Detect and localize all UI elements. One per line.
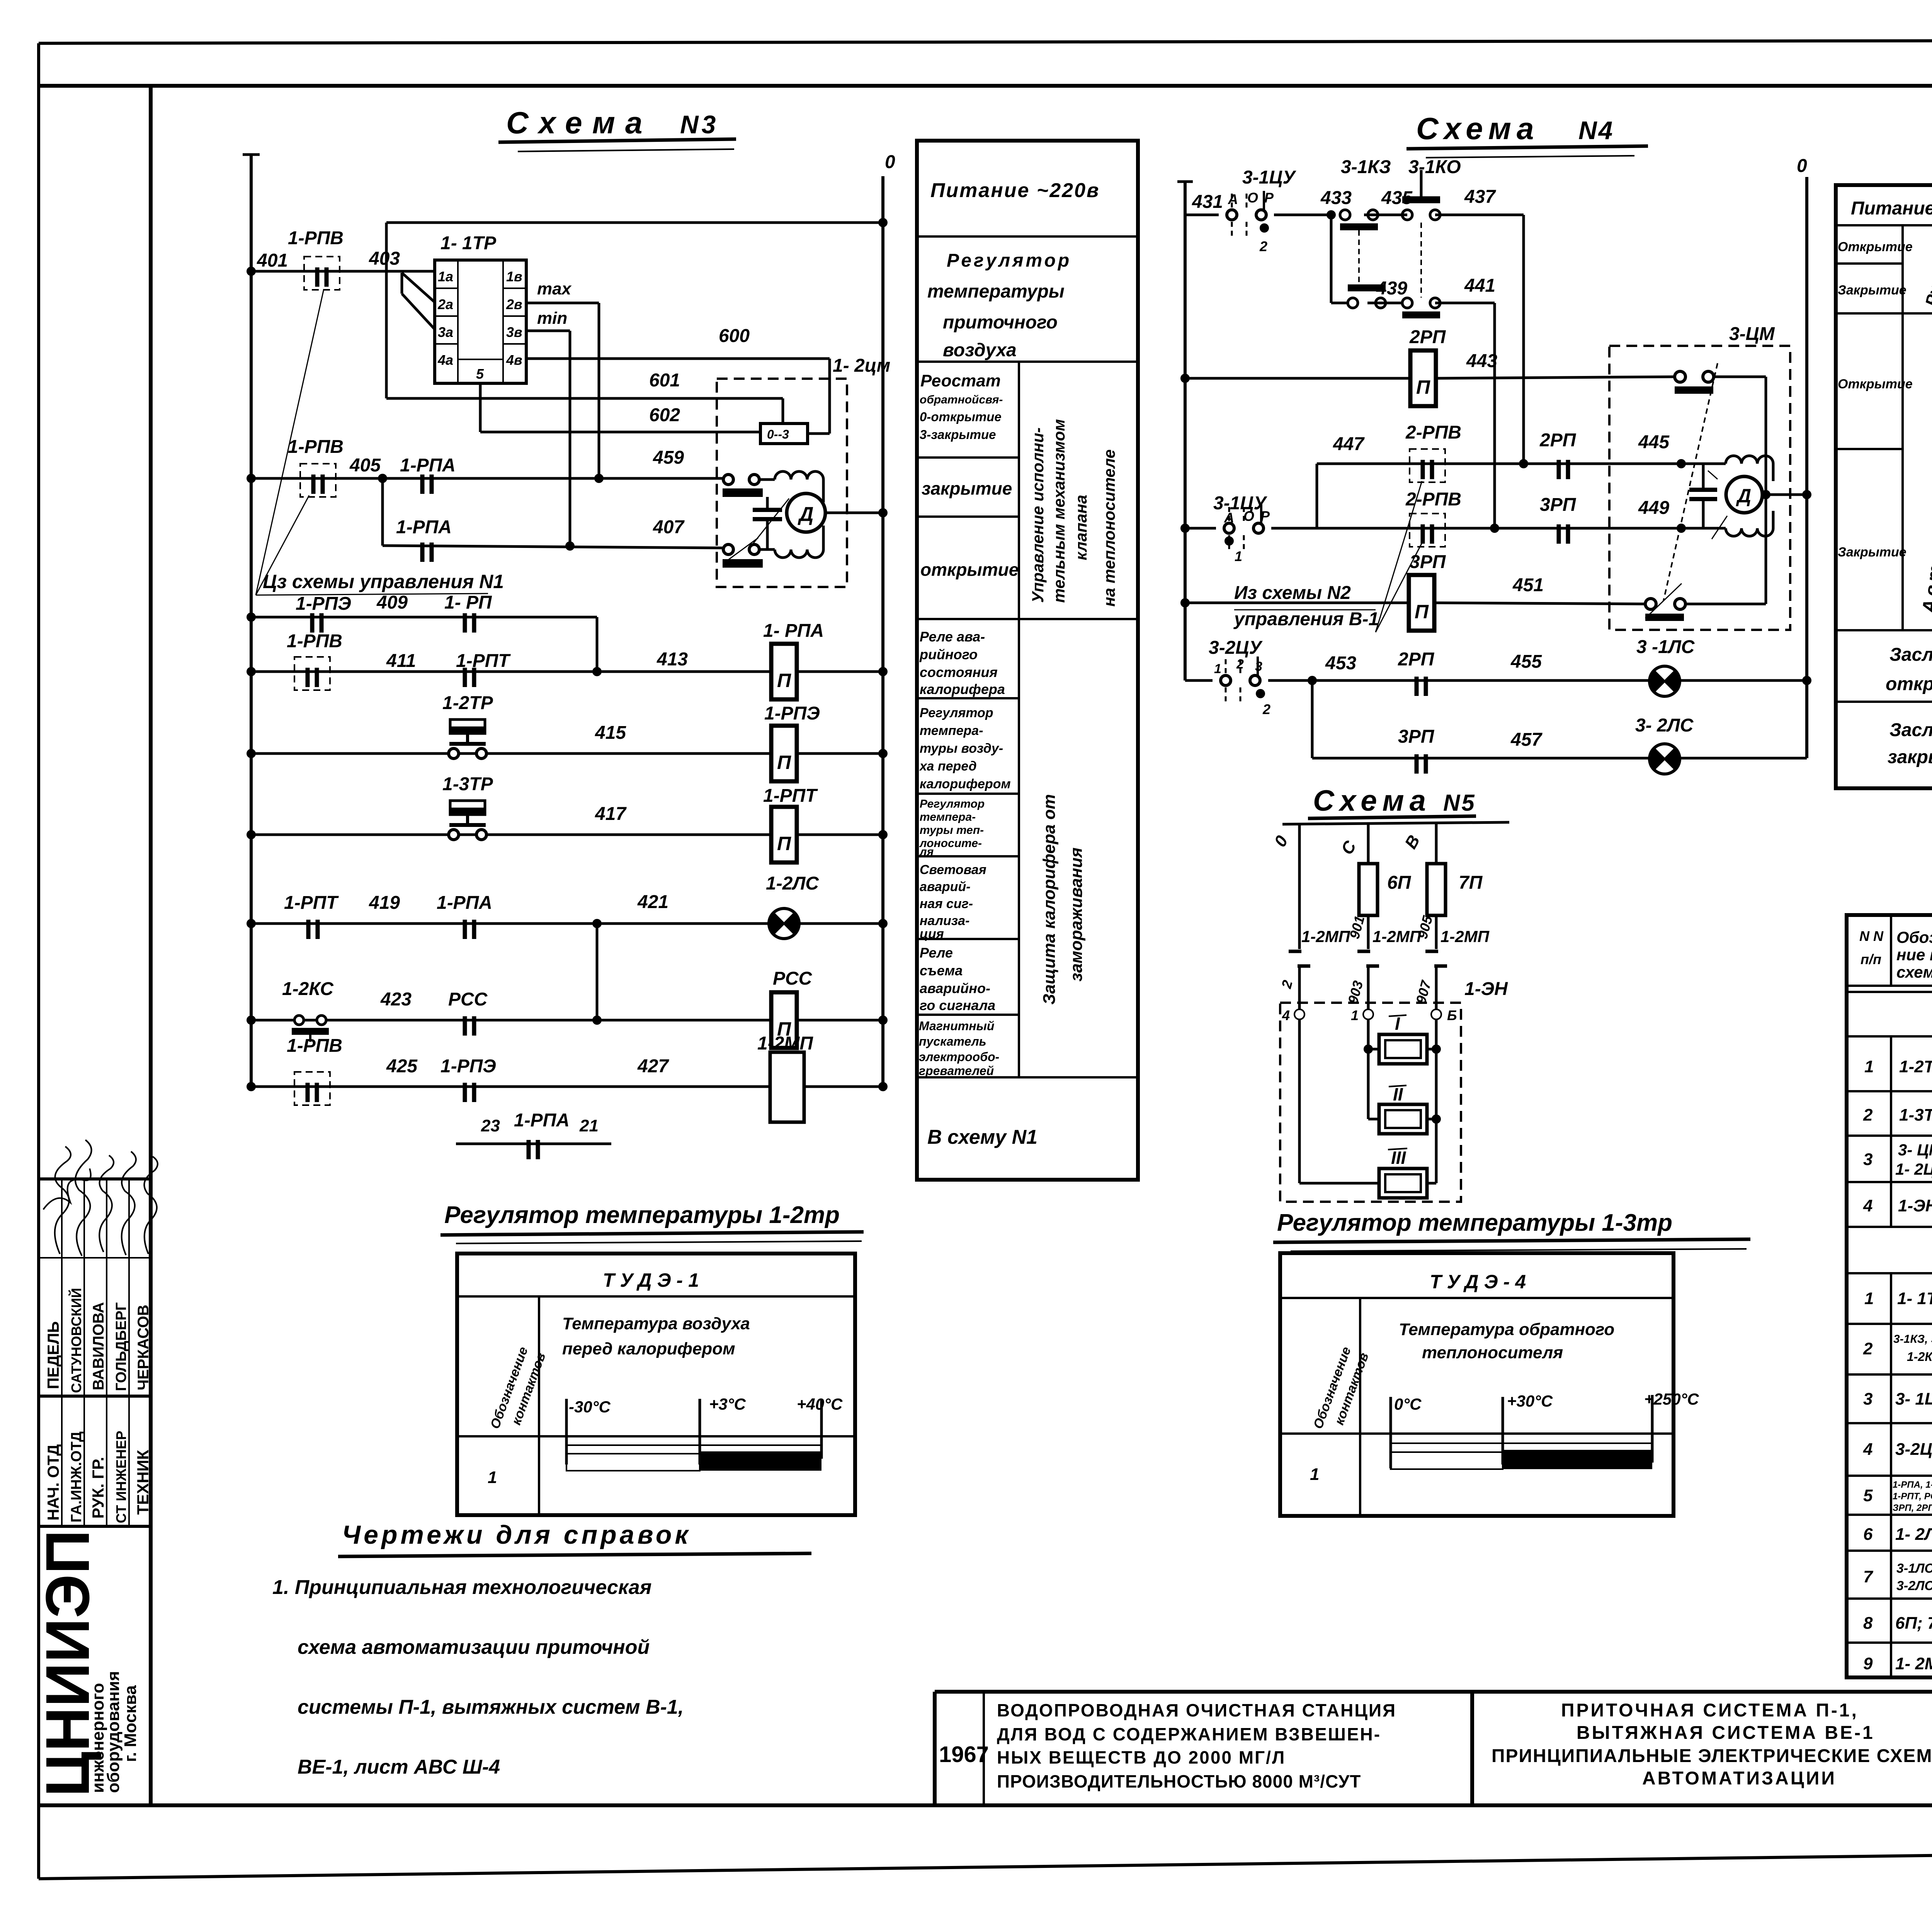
svg-text:4а: 4а — [437, 352, 453, 368]
svg-text:воздуха: воздуха — [943, 340, 1017, 361]
table ТУДЭ-1 — [457, 1254, 855, 1515]
svg-text:3РП: 3РП — [1410, 552, 1446, 572]
Schema N5 title — [1308, 784, 1476, 818]
svg-text:-30°С: -30°С — [569, 1398, 611, 1416]
svg-text:Регулятор: Регулятор — [920, 798, 985, 810]
svg-text:21: 21 — [579, 1116, 599, 1135]
svg-text:Управление исполни-: Управление исполни- — [1029, 427, 1047, 603]
pushbutton 3-1КЗ lower contact 439 — [1348, 298, 1386, 308]
svg-text:ЗРП, 2РП: ЗРП, 2РП — [1893, 1503, 1932, 1513]
svg-text:1-3ТР: 1-3ТР — [1899, 1106, 1932, 1124]
svg-text:449: 449 — [1638, 498, 1669, 518]
stamp signatures (cursive squiggles) — [55, 1146, 71, 1254]
svg-text:ГОЛЬДБЕРГ: ГОЛЬДБЕРГ — [113, 1302, 129, 1391]
svg-text:оборудования: оборудования — [104, 1671, 123, 1793]
svg-text:НЫХ ВЕЩЕСТВ ДО 2000 МГ/Л: НЫХ ВЕЩЕСТВ ДО 2000 МГ/Л — [997, 1747, 1286, 1767]
svg-text:423: 423 — [380, 989, 412, 1010]
svg-text:N3: N3 — [680, 110, 719, 139]
svg-text:Заслонка: Заслонка — [1889, 645, 1932, 665]
svg-text:3 -1ЛС: 3 -1ЛС — [1636, 637, 1695, 657]
wire 437 — [1435, 214, 1524, 216]
svg-text:ние по: ние по — [1896, 946, 1932, 964]
svg-text:3-2ЦУ: 3-2ЦУ — [1895, 1440, 1932, 1459]
svg-text:3- ЦМ: 3- ЦМ — [1898, 1141, 1932, 1159]
wire 405/459 — [251, 477, 724, 480]
temperature regulator block 1-1ТР — [435, 233, 526, 383]
svg-text:4в: 4в — [506, 352, 522, 368]
svg-text:1-2МП: 1-2МП — [1301, 927, 1350, 946]
rheostat 0--3 — [760, 424, 808, 444]
svg-text:Реле: Реле — [920, 945, 953, 961]
svg-text:455: 455 — [1510, 651, 1542, 672]
wire 417 — [251, 833, 771, 836]
svg-text:III: III — [1391, 1148, 1406, 1168]
svg-text:РУК. ГР.: РУК. ГР. — [89, 1457, 107, 1519]
svg-text:6: 6 — [1863, 1525, 1873, 1544]
svg-text:1-РПА, 1-РПЭ: 1-РПА, 1-РПЭ — [1893, 1480, 1932, 1490]
wire 601 — [386, 397, 783, 400]
wire 425/427 — [251, 1085, 770, 1088]
svg-text:427: 427 — [637, 1056, 669, 1077]
wire fan-in to pins 2a 3a — [402, 273, 435, 302]
svg-text:3: 3 — [1863, 1150, 1872, 1169]
svg-text:1: 1 — [1864, 1057, 1874, 1076]
svg-text:N N: N N — [1859, 928, 1884, 944]
svg-text:1: 1 — [488, 1468, 497, 1487]
svg-text:1- 2МП: 1- 2МП — [1895, 1654, 1932, 1673]
svg-text:5: 5 — [1863, 1486, 1873, 1505]
svg-text:О: О — [1247, 190, 1258, 206]
svg-text:441: 441 — [1464, 276, 1495, 296]
svg-text:N5: N5 — [1443, 790, 1476, 816]
svg-text:ЧЕРКАСОВ: ЧЕРКАСОВ — [135, 1305, 152, 1390]
svg-text:САТУНОВСКИЙ: САТУНОВСКИЙ — [68, 1288, 84, 1393]
svg-text:1-РПА: 1-РПА — [400, 455, 456, 476]
svg-text:N4: N4 — [1578, 116, 1614, 145]
svg-text:max: max — [537, 279, 572, 298]
svg-text:3а: 3а — [438, 324, 453, 340]
wire right bus N3 — [881, 176, 884, 1087]
svg-text:Магнитный: Магнитный — [919, 1019, 994, 1033]
motor coil upper (3-ЦМ) — [1726, 456, 1773, 464]
svg-text:г. Москва: г. Москва — [121, 1685, 140, 1762]
svg-text:415: 415 — [595, 723, 626, 743]
svg-text:ТЕХНИК: ТЕХНИК — [134, 1450, 152, 1515]
svg-text:Р: Р — [1264, 190, 1274, 206]
svg-text:457: 457 — [1510, 730, 1543, 750]
inner frame top — [37, 84, 1932, 88]
svg-text:на теплоносителе: на теплоносителе — [1100, 449, 1118, 607]
svg-text:3-2ЦУ: 3-2ЦУ — [1209, 638, 1263, 658]
signature table frame — [39, 1177, 151, 1180]
svg-text:системы П-1, вытяжных систем: системы П-1, вытяжных систем В-1, — [298, 1696, 684, 1718]
svg-text:СТ ИНЖЕНЕР: СТ ИНЖЕНЕР — [113, 1431, 129, 1523]
svg-text:перед калорифером: перед калорифером — [562, 1339, 735, 1358]
damper contact lower (3-ЦМ) — [1645, 599, 1656, 609]
svg-text:1-РПЭ: 1-РПЭ — [764, 703, 820, 724]
table ТУДЭ-4 — [1280, 1253, 1699, 1516]
wires inside heater box — [1298, 1019, 1301, 1183]
svg-text:аварийно-: аварийно- — [920, 980, 990, 996]
svg-text:туры теп-: туры теп- — [920, 824, 984, 837]
svg-text:Защита калорифера от: Защита калорифера от — [1040, 794, 1059, 1005]
svg-text:1-РПТ, РСС: 1-РПТ, РСС — [1893, 1491, 1932, 1502]
svg-text:Регулятор температуры 1-3тр: Регулятор температуры 1-3тр — [1277, 1209, 1672, 1236]
wire rung 449 — [1185, 527, 1216, 530]
svg-text:601: 601 — [649, 370, 680, 391]
svg-text:Чертежи для справок: Чертежи для справок — [342, 1520, 691, 1550]
svg-text:2РП: 2РП — [1539, 430, 1577, 451]
svg-text:Д: Д — [798, 503, 814, 526]
wire N5 right drop — [1435, 823, 1438, 949]
motor Д 1-2ЦМ — [787, 493, 825, 532]
wire rung 431 — [1185, 214, 1219, 216]
svg-text:411: 411 — [386, 651, 416, 671]
wire motor to bus — [825, 512, 883, 514]
svg-text:409: 409 — [376, 592, 408, 613]
svg-text:2: 2 — [1262, 701, 1270, 717]
svg-text:2-РПВ: 2-РПВ — [1405, 422, 1461, 443]
wire vertical right inside box — [1765, 377, 1767, 604]
svg-text:1: 1 — [1864, 1289, 1874, 1308]
wire branch to 439 — [1330, 215, 1333, 303]
wire rung 457 — [1312, 757, 1649, 760]
svg-text:3-1КО: 3-1КО — [1408, 157, 1461, 177]
svg-text:4: 4 — [1863, 1440, 1872, 1459]
fuse 7П — [1427, 864, 1446, 915]
svg-text:3-1ЦУ: 3-1ЦУ — [1213, 493, 1267, 514]
wire rung 453/455 — [1185, 679, 1213, 682]
svg-text:Температура воздуха: Температура воздуха — [562, 1314, 750, 1333]
wire left bus N3 — [250, 153, 253, 1087]
svg-text:451: 451 — [1512, 575, 1544, 595]
svg-text:4: 4 — [1863, 1196, 1872, 1215]
svg-text:4: 4 — [1282, 1007, 1290, 1023]
svg-text:Регулятор: Регулятор — [920, 706, 993, 720]
wire 423 — [251, 1019, 771, 1022]
svg-text:Б: Б — [1447, 1007, 1457, 1023]
svg-text:ВЕ-1, лист АВС Ш-4: ВЕ-1, лист АВС Ш-4 — [298, 1756, 500, 1778]
svg-text:Из схемы N2: Из схемы N2 — [1234, 583, 1351, 603]
svg-text:1-РПА: 1-РПА — [437, 893, 492, 913]
svg-text:417: 417 — [595, 804, 627, 824]
svg-text:закрытие: закрытие — [922, 478, 1012, 498]
svg-text:рийного: рийного — [919, 646, 978, 662]
svg-text:443: 443 — [1466, 351, 1497, 371]
svg-text:клапана: клапана — [1072, 495, 1090, 560]
wires between buttons — [1364, 214, 1407, 216]
svg-text:407: 407 — [653, 517, 685, 538]
svg-text:управления В-1: управления В-1 — [1233, 609, 1379, 629]
svg-text:1- РП: 1- РП — [444, 592, 492, 613]
svg-text:1-РПВ: 1-РПВ — [288, 228, 344, 248]
wire rung 447 — [1317, 463, 1726, 465]
svg-text:1а: 1а — [438, 269, 453, 284]
svg-text:1- 2ЛС: 1- 2ЛС — [1895, 1525, 1932, 1544]
svg-text:0°С: 0°С — [1394, 1395, 1422, 1413]
equipment table frame — [1847, 915, 1932, 1677]
svg-text:ВЫТЯЖНАЯ СИСТЕМА ВЕ-1: ВЫТЯЖНАЯ СИСТЕМА ВЕ-1 — [1577, 1723, 1875, 1743]
svg-text:ГА.ИНЖ.ОТД: ГА.ИНЖ.ОТД — [68, 1431, 85, 1522]
svg-text:РСС: РСС — [773, 968, 813, 989]
svg-text:1-2ТР: 1-2ТР — [442, 693, 493, 713]
svg-text:аварий-: аварий- — [920, 879, 971, 894]
svg-text:3РП: 3РП — [1398, 726, 1435, 747]
svg-text:нализа-: нализа- — [920, 913, 969, 928]
svg-text:РСС: РСС — [448, 989, 488, 1010]
svg-text:2РП: 2РП — [1409, 327, 1446, 347]
wire vertical branch x1000 — [385, 223, 388, 398]
svg-text:Регулятор температуры 1-2тр: Регулятор температуры 1-2тр — [444, 1202, 840, 1228]
svg-text:АВТОМАТИЗАЦИИ: АВТОМАТИЗАЦИИ — [1642, 1768, 1837, 1789]
outer border top — [39, 40, 1932, 43]
svg-text:0--3: 0--3 — [767, 427, 789, 441]
svg-text:Д: Д — [1736, 485, 1751, 507]
svg-text:2: 2 — [1863, 1106, 1873, 1124]
wire 419/421 — [251, 922, 769, 925]
svg-text:+3°С: +3°С — [709, 1395, 746, 1413]
svg-text:состояния: состояния — [920, 664, 998, 680]
capacitor (3-ЦМ) — [1702, 464, 1705, 488]
motor coil lower (3-ЦМ) — [1726, 528, 1773, 536]
svg-text:1-РПТ: 1-РПТ — [284, 893, 339, 913]
svg-text:431: 431 — [1192, 192, 1223, 212]
svg-text:437: 437 — [1464, 187, 1496, 207]
svg-text:3- 1ЦУ: 3- 1ЦУ — [1895, 1390, 1932, 1408]
mechanical link dashed diagonal — [1663, 363, 1718, 601]
svg-text:1- 1ТР: 1- 1ТР — [440, 233, 497, 253]
motor coil lower — [775, 549, 823, 558]
svg-text:2в: 2в — [506, 296, 522, 312]
svg-text:1- 1ТР: 1- 1ТР — [1897, 1289, 1932, 1308]
svg-text:439: 439 — [1376, 278, 1407, 299]
svg-text:ПРИТОЧНАЯ СИСТЕМА П-1,: ПРИТОЧНАЯ СИСТЕМА П-1, — [1561, 1700, 1859, 1721]
svg-text:Регулятор: Регулятор — [947, 250, 1071, 271]
motor contact upper (1-2ЦМ) — [723, 475, 733, 485]
svg-text:405: 405 — [349, 455, 381, 476]
svg-text:0: 0 — [1797, 156, 1807, 176]
svg-text:3-1КЗ: 3-1КЗ — [1341, 157, 1391, 177]
svg-text:Реостат: Реостат — [920, 371, 1001, 390]
svg-text:Цз схемы управления N1: Цз схемы управления N1 — [263, 571, 504, 592]
wire 409 — [251, 616, 597, 619]
svg-text:3-закрытие: 3-закрытие — [920, 427, 996, 442]
svg-text:1-РПА: 1-РПА — [396, 517, 452, 538]
heater dashed box — [1280, 1003, 1461, 1202]
svg-text:тельным механизмом: тельным механизмом — [1050, 419, 1068, 603]
svg-text:ля: ля — [919, 845, 934, 858]
svg-text:3-1ЛС: 3-1ЛС — [1896, 1561, 1932, 1576]
svg-text:1-ЭН: 1-ЭН — [1898, 1196, 1932, 1215]
wire branch down to 407 — [381, 478, 384, 546]
svg-text:Закрытие: Закрытие — [1838, 545, 1906, 560]
svg-text:602: 602 — [649, 405, 680, 425]
svg-text:туры возду-: туры возду- — [920, 741, 1003, 756]
svg-text:ДЛЯ ВОД С СОДЕРЖАНИЕМ ВЗВЕШЕН-: ДЛЯ ВОД С СОДЕРЖАНИЕМ ВЗВЕШЕН- — [997, 1724, 1381, 1744]
svg-text:ПРОИЗВОДИТЕЛЬНОСТЬЮ 8000 М³/СУ: ПРОИЗВОДИТЕЛЬНОСТЬЮ 8000 М³/СУТ — [997, 1771, 1361, 1791]
svg-text:3-ЦМ: 3-ЦМ — [1729, 324, 1775, 344]
svg-text:темпера-: темпера- — [920, 811, 976, 823]
motor contact lower (1-2ЦМ) — [723, 544, 733, 555]
svg-text:теплоносителя: теплоносителя — [1422, 1343, 1563, 1362]
svg-text:3: 3 — [1863, 1390, 1872, 1408]
svg-text:п/п: п/п — [1861, 951, 1881, 967]
svg-text:401: 401 — [257, 250, 288, 271]
svg-text:1967: 1967 — [939, 1742, 989, 1767]
svg-text:1-2МП: 1-2МП — [1440, 927, 1490, 946]
svg-text:го сигнала: го сигнала — [920, 997, 995, 1013]
svg-text:3РП: 3РП — [1540, 495, 1577, 515]
wire branch 421 down — [596, 924, 599, 1020]
svg-text:ТУДЭ-4: ТУДЭ-4 — [1430, 1271, 1531, 1293]
svg-text:2а: 2а — [437, 296, 453, 312]
svg-text:съема: съема — [920, 963, 963, 978]
svg-text:23: 23 — [481, 1116, 500, 1135]
wire branch 453 down — [1311, 680, 1314, 758]
svg-text:ная сиг-: ная сиг- — [920, 896, 973, 911]
N3 legend table frame — [917, 141, 1138, 1180]
svg-text:+30°С: +30°С — [1507, 1392, 1553, 1410]
svg-text:+40°С: +40°С — [797, 1395, 843, 1413]
svg-text:1в: 1в — [506, 269, 522, 284]
svg-text:1-РПВ: 1-РПВ — [288, 437, 344, 457]
note leader lines — [256, 495, 309, 595]
svg-text:6П: 6П — [1387, 873, 1412, 893]
svg-text:1-2КС: 1-2КС — [1907, 1350, 1932, 1364]
wire 602 from pin 5 — [479, 383, 482, 432]
wire 407 — [383, 546, 724, 548]
svg-text:закрыта: закрыта — [1888, 747, 1932, 767]
svg-text:3в: 3в — [506, 324, 522, 340]
svg-text:ТУДЭ-1: ТУДЭ-1 — [603, 1269, 704, 1291]
Schema N4 title — [1406, 111, 1648, 158]
svg-text:0-открытие: 0-открытие — [920, 410, 1002, 424]
mechanical link diagonal — [753, 498, 789, 544]
svg-text:600: 600 — [719, 326, 750, 346]
wire rung 443 — [1185, 377, 1410, 380]
svg-text:1: 1 — [1235, 548, 1242, 564]
svg-text:1-РПВ: 1-РПВ — [287, 631, 342, 651]
wire max from pin 2в — [526, 302, 599, 304]
wire 411/413 — [251, 670, 771, 673]
svg-text:схеме: схеме — [1896, 963, 1932, 981]
svg-text:1-3ТР: 1-3ТР — [442, 774, 493, 794]
svg-text:ВАВИЛОВА: ВАВИЛОВА — [90, 1302, 107, 1390]
svg-text:1-2МП: 1-2МП — [1372, 927, 1422, 946]
svg-text:Питание ~220В: Питание ~220В — [1851, 198, 1932, 219]
N4 legend table frame — [1836, 185, 1932, 788]
svg-text:1- РПА: 1- РПА — [763, 621, 824, 641]
svg-text:1-РПЭ: 1-РПЭ — [440, 1056, 496, 1077]
svg-text:2: 2 — [1863, 1339, 1873, 1358]
fuse 6П — [1359, 864, 1378, 915]
svg-text:1: 1 — [1214, 662, 1221, 676]
svg-text:3- 2ЛС: 3- 2ЛС — [1635, 715, 1694, 736]
svg-text:433: 433 — [1320, 188, 1352, 208]
svg-text:В схему N1: В схему N1 — [927, 1126, 1037, 1148]
svg-text:445: 445 — [1638, 432, 1670, 452]
outer border bottom — [39, 1846, 1932, 1879]
svg-text:темпера-: темпера- — [920, 723, 983, 738]
svg-text:3-1ЦУ: 3-1ЦУ — [1242, 167, 1296, 188]
svg-text:ция: ция — [920, 927, 944, 941]
capacitor (1-2ЦМ) — [766, 497, 769, 508]
svg-text:калорифером: калорифером — [920, 777, 1011, 791]
svg-text:Световая: Световая — [920, 862, 986, 877]
stub contact 1-РПА 23/21 — [456, 1143, 611, 1145]
svg-text:II: II — [1393, 1084, 1403, 1104]
svg-text:1: 1 — [1351, 1007, 1359, 1023]
svg-text:min: min — [537, 309, 567, 328]
svg-text:Схема: Схема — [1416, 111, 1539, 146]
svg-text:схема автоматизации приточн: схема автоматизации приточной — [298, 1636, 650, 1658]
svg-text:425: 425 — [386, 1056, 418, 1077]
stamp column divider — [149, 86, 153, 1805]
svg-text:калорифера: калорифера — [920, 681, 1005, 697]
svg-text:5: 5 — [476, 366, 484, 382]
svg-text:1: 1 — [1310, 1465, 1319, 1484]
svg-text:2РП: 2РП — [1398, 649, 1435, 670]
svg-text:электрообо-: электрообо- — [919, 1050, 999, 1064]
damper contact upper (3-ЦМ) — [1675, 371, 1685, 382]
svg-text:6П; 7П: 6П; 7П — [1895, 1614, 1932, 1633]
svg-text:7: 7 — [1863, 1567, 1874, 1586]
svg-text:459: 459 — [653, 447, 684, 468]
svg-text:открыта: открыта — [1886, 674, 1932, 694]
inner frame bottom — [37, 1803, 1932, 1807]
svg-text:Питание ~220в: Питание ~220в — [930, 179, 1100, 202]
svg-text:447: 447 — [1333, 434, 1365, 454]
wire N5 middle drop — [1367, 823, 1370, 949]
svg-text:1-РПВ: 1-РПВ — [287, 1036, 342, 1056]
outer border left — [37, 43, 40, 1879]
svg-text:обратнойсвя-: обратнойсвя- — [920, 393, 1003, 406]
wire 401 — [251, 270, 435, 273]
pushbutton 3-1КО lower contact 441 — [1402, 298, 1440, 308]
svg-text:гревателей: гревателей — [919, 1064, 994, 1078]
svg-text:0: 0 — [885, 152, 895, 172]
svg-text:1-РПЭ: 1-РПЭ — [296, 594, 351, 614]
svg-text:1- 2цм: 1- 2цм — [833, 356, 890, 376]
svg-text:3-2ЛС: 3-2ЛС — [1896, 1579, 1932, 1593]
svg-text:Обозначе: Обозначе — [1896, 928, 1932, 946]
wire 441 — [1435, 302, 1495, 304]
svg-text:приточного: приточного — [943, 312, 1058, 333]
wire N5 top rail — [1282, 822, 1509, 824]
svg-text:1- 2ЦМ: 1- 2ЦМ — [1895, 1160, 1932, 1178]
motor Д 3-ЦМ — [1726, 476, 1762, 513]
svg-text:пускатель: пускатель — [919, 1034, 986, 1048]
wire 600 from pin 4в — [526, 357, 830, 360]
svg-text:ВОДОПРОВОДНАЯ ОЧИСТНАЯ СТАНЦИЯ: ВОДОПРОВОДНАЯ ОЧИСТНАЯ СТАНЦИЯ — [997, 1700, 1396, 1720]
svg-text:Реле ава-: Реле ава- — [920, 629, 985, 645]
svg-text:1-ЭН: 1-ЭН — [1464, 979, 1508, 999]
svg-text:8: 8 — [1863, 1614, 1873, 1633]
svg-text:Температура обратного: Температура обратного — [1399, 1320, 1614, 1339]
svg-text:2: 2 — [1259, 238, 1267, 254]
wire left bus N4 — [1184, 180, 1187, 680]
svg-text:Схема: Схема — [506, 105, 652, 140]
svg-text:ПЕДЕЛЬ: ПЕДЕЛЬ — [44, 1321, 62, 1389]
svg-text:7П: 7П — [1459, 873, 1483, 893]
svg-text:Открытие: Открытие — [1838, 240, 1913, 254]
svg-text:Открытие: Открытие — [1838, 377, 1913, 391]
svg-text:419: 419 — [369, 893, 400, 913]
signature table row dividers — [61, 1179, 63, 1526]
wire 415 — [251, 752, 771, 755]
svg-text:Закрытие: Закрытие — [1838, 283, 1906, 298]
Schema N3 title — [498, 105, 736, 151]
